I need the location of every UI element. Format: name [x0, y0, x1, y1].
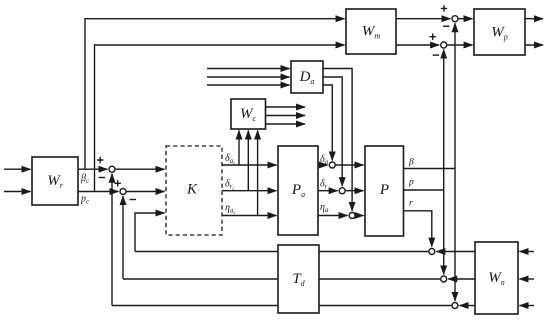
summing junction j_r2 — [339, 188, 345, 194]
wire: Wn output 1 into j_r — [436, 251, 475, 253]
wire: Wp output 1 — [525, 18, 543, 20]
wire: P output r row, down into junction j_r — [404, 211, 432, 247]
wire: Td output row r to left riser — [135, 251, 278, 253]
wire: j_r2 to P input 2 — [346, 190, 364, 192]
wire: Pa out row1 into j_a — [318, 164, 328, 166]
summing junction j2 — [120, 189, 126, 195]
wire: K output eta_a_c to Pa — [222, 215, 277, 217]
summing junction j_b — [452, 303, 458, 309]
wire: j_a to P input 1 — [336, 164, 364, 166]
wire: beta up into top junction jt1 — [454, 23, 456, 168]
svg-text:P: P — [379, 182, 389, 198]
wire: Wc output 2 — [266, 115, 306, 117]
wire: Da output mid to junction j_r2 — [323, 77, 342, 186]
svg-text:pc: pc — [80, 194, 90, 206]
block Td — [278, 245, 319, 313]
wire: tap up to Wc input 1 — [238, 131, 240, 166]
wire: jt1 to Wp input 1 — [459, 18, 473, 20]
block Wm — [346, 9, 396, 54]
svg-text:β: β — [408, 158, 414, 168]
summing junction j_a — [329, 162, 335, 168]
wire: p_c from Wr to junction j2 — [78, 191, 118, 193]
wire: feedback beta up into j1 from below — [111, 174, 113, 306]
wire: Pa out row2 into j_r2 — [318, 190, 338, 192]
svg-text:ηa: ηa — [320, 202, 329, 214]
wire: Da output bottom to junction j_a — [323, 85, 332, 160]
svg-text:βc: βc — [80, 173, 90, 185]
wire: j2 to K input 2 — [127, 191, 165, 193]
wire: Da input 3 — [207, 84, 290, 86]
summing junction j1 — [109, 166, 115, 172]
wire: j_b output left into Td — [319, 305, 451, 307]
svg-text:K: K — [186, 182, 198, 198]
summing junction j_eta — [349, 213, 355, 219]
block Pa — [278, 146, 318, 235]
junction j1 plus sign — [97, 157, 103, 163]
wire: Wn output 2 into j_p — [448, 278, 475, 280]
block Da — [291, 61, 323, 93]
wire: j1 to K input 1 — [116, 168, 165, 170]
wire: Wn input 3 — [520, 305, 535, 307]
wire: j_eta to P input 3 — [356, 215, 364, 217]
svg-text:δr: δr — [320, 179, 328, 191]
wire: feedback p up into j2 from below — [122, 196, 124, 279]
wire: jt2 to Wp input 2 — [447, 44, 472, 46]
svg-text:δa: δa — [320, 154, 329, 166]
wire: p down into junction j_p — [443, 190, 445, 274]
wire: p_c branch up at x=94.5 to Wm input 2 — [95, 45, 345, 192]
wire: Da output top to junction j_eta — [323, 69, 352, 211]
wire: Td output row p to left riser — [123, 278, 278, 280]
wire: P output p row, T branch at x=443.7 — [404, 189, 444, 191]
wire: p up into top junction jt2 — [443, 50, 445, 190]
block Wp — [474, 9, 525, 55]
wire: Da input 1 — [207, 68, 290, 70]
svg-text:ηac: ηac — [225, 203, 236, 217]
wire: beta_c branch up at x=85 to Wm input 1 — [85, 19, 345, 170]
block P — [365, 146, 404, 236]
wire: Wp output 2 — [525, 44, 543, 46]
svg-text:p: p — [408, 178, 414, 188]
wire: Wm output 1 into jt1 — [396, 18, 450, 20]
wire: tap up to Wc input 2 — [247, 131, 249, 191]
wire: Wn input 2 — [520, 278, 535, 280]
wire: beta_c from Wr to junction j1 — [78, 168, 107, 170]
wire: input 2 into Wr — [4, 191, 31, 193]
block Wn — [475, 242, 518, 314]
svg-text:δrc: δrc — [225, 179, 235, 193]
summing junction j_p — [441, 276, 447, 282]
wire: tap up to Wc input 3 — [257, 131, 259, 216]
summing junction j_r — [429, 249, 435, 255]
wire: K output delta_r_c to Pa — [222, 190, 277, 192]
summing junction jt1 — [452, 16, 458, 22]
wire: Wc output 1 — [266, 106, 306, 108]
junction jt1 minus sign — [443, 25, 449, 27]
wire: j_r output left into Td — [319, 251, 428, 253]
junction jt2 minus sign — [433, 54, 439, 56]
summing junction jt2 — [441, 42, 447, 48]
wire: Wn input 1 — [520, 251, 535, 253]
junction j2 minus sign — [130, 199, 136, 201]
junction j1 minus sign — [99, 177, 105, 179]
wire: beta down into junction j_b — [454, 169, 456, 301]
wire: input 1 into Wr — [4, 168, 31, 170]
wire: P output beta row, T branch at x=455 — [404, 168, 456, 170]
wire: feedback r row up at x=135 into K input 3 — [135, 213, 165, 252]
svg-text:r: r — [409, 199, 413, 209]
wire: Wn output 3 into j_b — [460, 305, 475, 307]
junction j2 plus sign — [115, 180, 121, 186]
wire: Pa out row3 into j_eta — [318, 215, 348, 217]
wire: K output delta_a_c to Pa — [222, 164, 277, 166]
block Wc — [231, 99, 266, 129]
wire: j_p output left into Td — [319, 278, 440, 280]
junction jt2 plus sign — [430, 34, 436, 40]
wire: Wc output 3 — [266, 123, 306, 125]
wire: Td output row beta to left riser — [112, 305, 278, 307]
wire: Wm output 2 into jt2 — [396, 44, 439, 46]
controller block K (dashed) — [166, 146, 222, 235]
wire: Da input 2 — [207, 76, 290, 78]
junction jt1 plus sign — [441, 5, 447, 11]
block Wr — [32, 157, 78, 205]
